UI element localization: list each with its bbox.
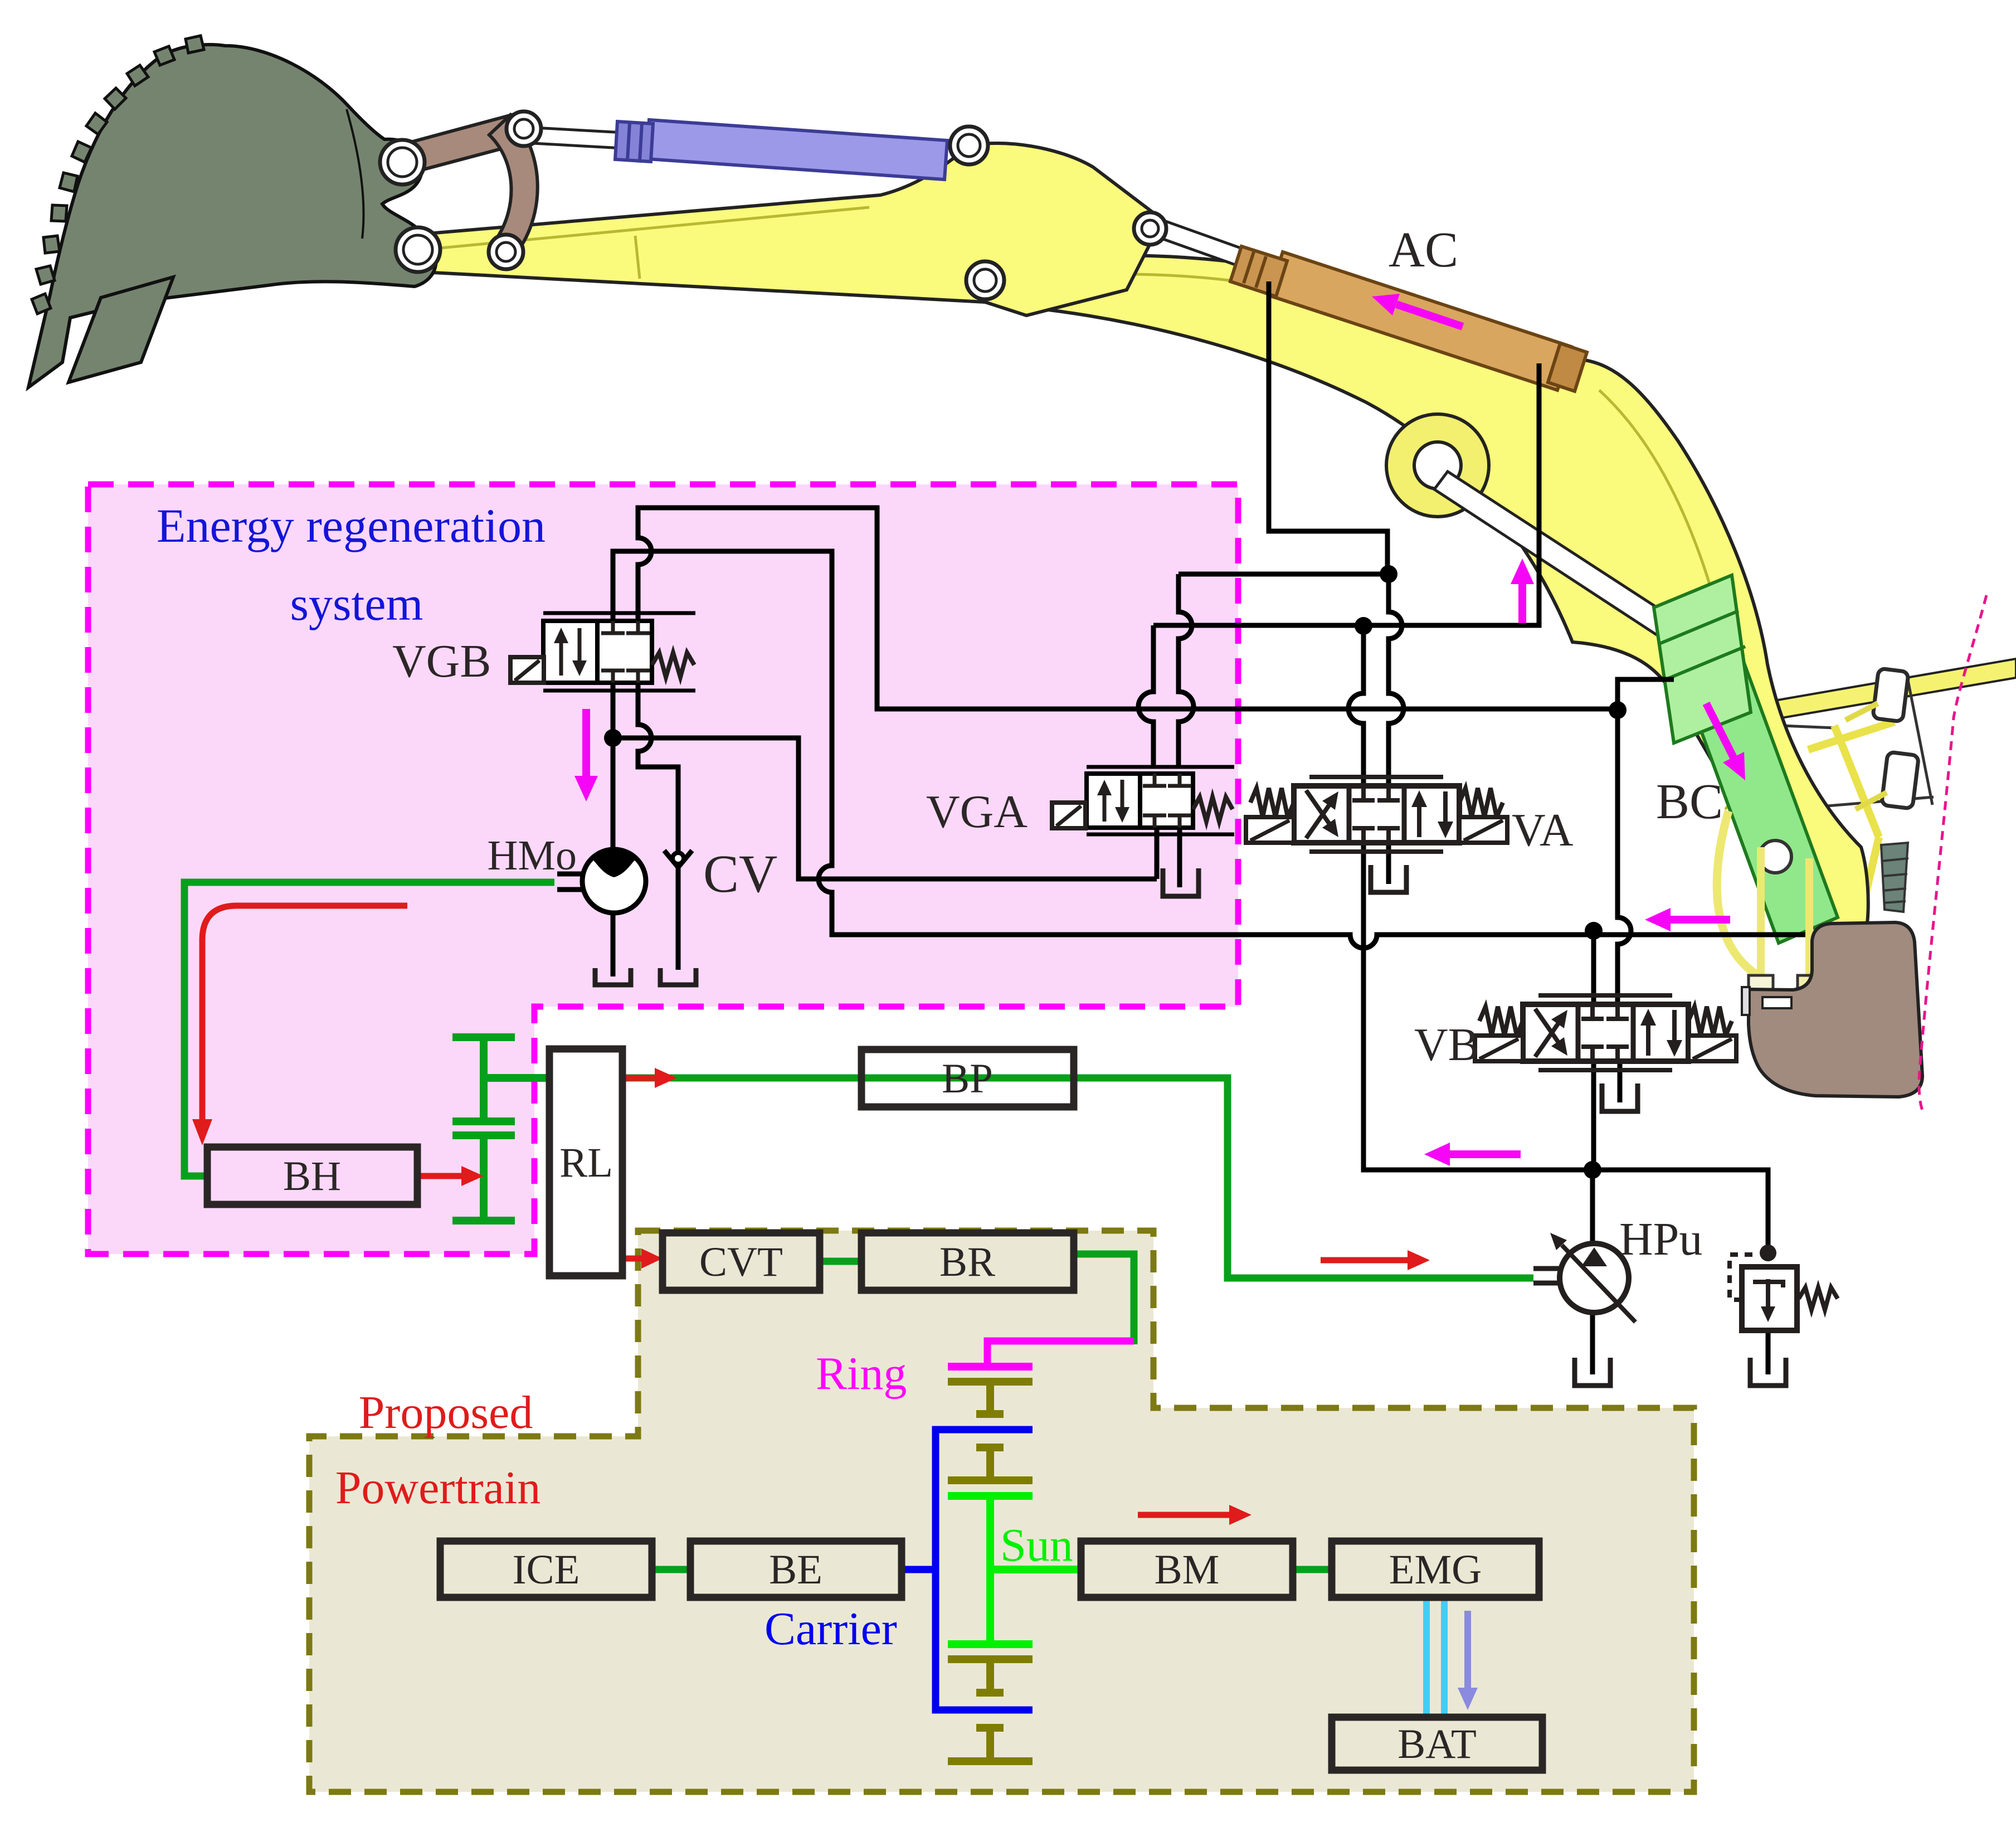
- component box BM: [1081, 1541, 1293, 1597]
- svg-text:BAT: BAT: [1397, 1721, 1477, 1767]
- component box ICE: [440, 1541, 652, 1597]
- svg-text:AC: AC: [1389, 222, 1458, 278]
- wire: VGB TL to VB/BC-bottom (y989 / y1677 line): [613, 551, 1805, 948]
- mirror 1: [1873, 668, 1909, 722]
- svg-text:ICE: ICE: [513, 1547, 580, 1593]
- wire: BC top port branch: [1618, 679, 1674, 710]
- electric lines EMG to BAT (cyan): [1423, 1597, 1430, 1717]
- red arrow RL to BP: [624, 1075, 655, 1081]
- bucket link lower (curved): [489, 115, 538, 256]
- wire: relief valve bottom to tank: [1766, 1330, 1771, 1374]
- svg-text:BP: BP: [942, 1056, 993, 1102]
- violet arrow EMG to BAT: [1464, 1611, 1471, 1688]
- wire: VA top-right port up to y1030: [1389, 574, 1404, 786]
- svg-text:Proposed: Proposed: [359, 1387, 533, 1439]
- magenta arrow below VGB: [582, 709, 590, 776]
- red arrow on pump line: [1321, 1257, 1408, 1264]
- hydraulic motor HMo: [582, 849, 646, 913]
- green link CVT-BR: [820, 1258, 861, 1265]
- tank below VB: [1602, 1083, 1638, 1111]
- wire: BC junction down to VB top-right (hop y1670): [1618, 710, 1631, 1004]
- component box CVT: [663, 1233, 820, 1290]
- stick / arm (yellow): [421, 143, 1162, 315]
- bucket side plate (diamond): [69, 277, 173, 382]
- wire: VGA left port up to y1122: [1138, 625, 1153, 767]
- svg-text:VB: VB: [1414, 1019, 1479, 1071]
- green shaft: HMo to BH flywheel: [184, 882, 554, 1176]
- relief valve: [1742, 1267, 1797, 1330]
- red arrow into BH: [202, 906, 407, 1119]
- magenta arrow near BC top: [1518, 584, 1526, 623]
- mirror 2: [1881, 752, 1918, 809]
- wire: VGA tank stub: [1177, 828, 1182, 887]
- ring gear connection (magenta): [987, 1341, 1134, 1367]
- junction: VB top-left: [1591, 931, 1596, 1004]
- component box BP: [861, 1049, 1074, 1107]
- svg-text:Energy regeneration: Energy regeneration: [157, 499, 546, 552]
- tank below HPu: [1575, 1358, 1610, 1386]
- boom cylinder rod: [1434, 472, 1683, 643]
- tank below VA: [1371, 865, 1406, 892]
- planet gear upper (olive): [948, 1447, 1033, 1480]
- bucket cylinder rod: [523, 127, 624, 148]
- svg-text:BM: BM: [1155, 1547, 1220, 1593]
- green line RL to BP to HPu: [622, 1078, 1533, 1278]
- wire: y1030 from VGA corner to AC junction: [1179, 572, 1389, 577]
- wire: VGB TR to VA/BC (y911 / y1272 line): [638, 508, 1618, 709]
- tank below relief valve: [1750, 1358, 1786, 1386]
- component box BH: [207, 1147, 417, 1204]
- wire: VGA bottom-left port: [1155, 828, 1160, 879]
- svg-text:BR: BR: [939, 1239, 995, 1285]
- bucket link upper: [390, 113, 530, 176]
- svg-text:VGA: VGA: [926, 786, 1028, 838]
- wire: y1122 AC head side line: [1153, 363, 1539, 625]
- valve VGA (2/2 solenoid): [1052, 767, 1234, 834]
- tank below HMo: [595, 968, 631, 985]
- flywheel gear set between BH and RL: [452, 1037, 549, 1221]
- magenta arrow on AC cylinder: [1396, 304, 1463, 327]
- component box RL: [549, 1049, 622, 1276]
- svg-text:BE: BE: [769, 1547, 822, 1593]
- red arrow above BM: [1138, 1512, 1229, 1518]
- green link BM-EMG: [1293, 1566, 1332, 1573]
- magenta arrow on BC cylinder: [1706, 703, 1733, 757]
- carrier (blue): [936, 1430, 1033, 1710]
- component box BAT: [1332, 1717, 1542, 1770]
- green link ICE-BE: [652, 1566, 690, 1573]
- hydraulic hoses: [1717, 811, 1760, 976]
- valve VB (4/3 directional): [1475, 995, 1736, 1070]
- magenta arrow on pump return line: [1450, 1150, 1521, 1158]
- wire: HPu bottom to tank: [1590, 1313, 1595, 1374]
- sun gear (bright green): [948, 1496, 1081, 1644]
- svg-text:HMo: HMo: [488, 832, 577, 879]
- dozer blade (brown): [1749, 922, 1922, 1097]
- bucket cylinder (violet): [615, 120, 947, 179]
- wire: VGB BR down to CV (hop y1324): [638, 683, 678, 970]
- svg-text:Sun: Sun: [1000, 1519, 1073, 1571]
- magenta arrow to BC bottom line: [1671, 916, 1730, 924]
- svg-text:HPu: HPu: [1619, 1213, 1702, 1265]
- wire: HMo bottom to tank: [611, 913, 616, 976]
- proposed powertrain region (olive dashed box): [309, 1231, 1694, 1792]
- ring gear top (olive): [948, 1382, 1033, 1414]
- wire: VA tank stub: [1386, 843, 1391, 884]
- valve VGB (2/2 solenoid): [510, 613, 695, 691]
- svg-text:RL: RL: [559, 1140, 613, 1186]
- component box BR: [861, 1233, 1074, 1290]
- planet gear lower (olive): [948, 1659, 1033, 1693]
- variable pump HPu: [1560, 1243, 1629, 1313]
- tank below CV: [660, 968, 696, 985]
- red arrow BH to gear: [417, 1173, 461, 1179]
- junction dots on AC lines: [1380, 565, 1397, 583]
- svg-text:EMG: EMG: [1389, 1547, 1482, 1593]
- svg-text:BH: BH: [283, 1153, 341, 1199]
- excavator cab and body (background): [1726, 659, 2016, 727]
- machine cut boundary (dashed): [1919, 595, 1986, 1114]
- component box BE: [690, 1541, 902, 1597]
- wire: AC rod side to VA (via junction): [1269, 281, 1387, 574]
- svg-text:system: system: [290, 577, 423, 630]
- green line BR down to ring: [1074, 1254, 1134, 1344]
- joystick bellows: [1881, 843, 1908, 912]
- svg-text:Carrier: Carrier: [764, 1603, 897, 1655]
- boom (yellow): [989, 255, 1868, 928]
- arm cylinder rod: [1152, 218, 1245, 266]
- svg-text:CVT: CVT: [699, 1239, 783, 1285]
- wire: VB bottom-left down to pump junction: [1591, 1061, 1596, 1170]
- ring gear bottom (olive): [948, 1728, 1033, 1761]
- pivot pins: [380, 140, 425, 184]
- component box EMG: [1332, 1541, 1539, 1597]
- boom cylinder BC (green): [1654, 575, 1838, 943]
- bucket teeth: [186, 36, 204, 53]
- valve VA (4/3 directional): [1246, 777, 1507, 852]
- boom hub pin: [1386, 414, 1489, 517]
- red arrow RL to CVT: [624, 1256, 641, 1262]
- svg-text:CV: CV: [703, 844, 777, 903]
- svg-text:VGB: VGB: [392, 635, 491, 687]
- wire: VA bottom-left drain to pump line: [1364, 843, 1768, 1253]
- wire: HPu to junction: [1590, 1170, 1595, 1245]
- svg-text:Ring: Ring: [816, 1348, 907, 1400]
- check valve CV: [664, 851, 692, 867]
- arm cylinder AC (orange): [1230, 246, 1587, 391]
- svg-text:Powertrain: Powertrain: [335, 1462, 541, 1514]
- wire: VB tank stub: [1618, 1061, 1623, 1102]
- svg-text:BC: BC: [1656, 774, 1723, 829]
- bucket (grey): [28, 45, 436, 387]
- tank below VGA: [1163, 868, 1199, 896]
- energy regeneration system region (pink dashed box): [88, 484, 1238, 1254]
- svg-text:VA: VA: [1512, 804, 1574, 856]
- wire: VGB BL down to HMo with branch to VGA: [611, 683, 616, 849]
- wire: VGA right port up (hops y1122, y1268): [1179, 574, 1194, 767]
- wire: VA top-left port up to y1122: [1348, 626, 1364, 786]
